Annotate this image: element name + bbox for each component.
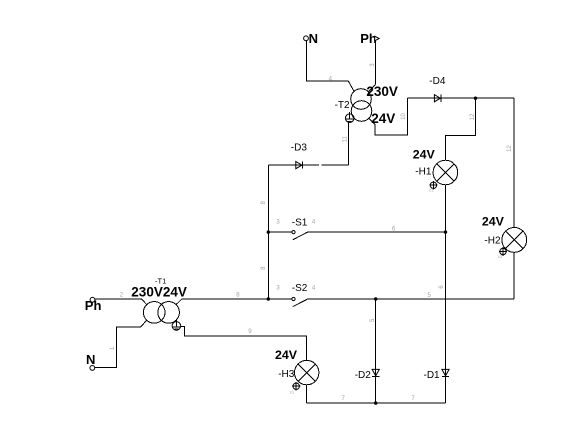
svg-text:24V: 24V [371, 111, 395, 126]
earth terminal symbol on T2 secondary [345, 112, 354, 123]
terminal Ph (left) [85, 297, 102, 313]
wire D3 row [268, 164, 348, 166]
svg-text:24V: 24V [413, 147, 436, 161]
svg-text:Ph: Ph [85, 298, 102, 313]
wire 2 (Ph to T1 primary) [95, 299, 147, 305]
terminal symbol H3 [292, 382, 300, 391]
wire 6 (S1 to right bus) [308, 231, 446, 233]
svg-text:-T2: -T2 [335, 100, 350, 111]
junction S2/D2 [374, 297, 377, 300]
svg-text:-H1: -H1 [415, 166, 432, 177]
earth terminal symbol on T1 secondary [172, 320, 181, 331]
svg-text:12: 12 [507, 145, 513, 152]
diode D4 [434, 95, 441, 102]
svg-text:x1: x1 [429, 188, 434, 193]
svg-text:-S2: -S2 [292, 283, 308, 294]
svg-text:24V: 24V [275, 348, 298, 362]
diode D2 [372, 369, 379, 376]
svg-text:24V: 24V [482, 214, 505, 228]
wire 12 branch (junction down to H1) [446, 98, 476, 160]
svg-text:-D2: -D2 [355, 370, 372, 381]
junction D4 row [474, 97, 477, 100]
diode D3 [296, 162, 303, 169]
wire H2 bottom to S2 row [513, 252, 515, 299]
svg-text:11: 11 [343, 135, 349, 142]
wire 6 vertical (H1 bottom through S1, S2 to D1) [445, 185, 447, 403]
terminal N (top) [304, 31, 318, 46]
wire 11 (T2 secondary left down to D3 row) [348, 123, 350, 166]
wire D4 row [407, 97, 514, 99]
junction S2 left [267, 297, 270, 300]
svg-text:230V24V: 230V24V [131, 284, 187, 299]
svg-text:-D3: -D3 [291, 143, 308, 154]
junction bottom D2 [374, 401, 377, 404]
bottom wire 7 [307, 402, 446, 404]
wire 5 (S2 to right corner) [308, 298, 515, 300]
wire 8 (T1 secondary to S2) [176, 299, 268, 305]
terminal N (left) [86, 352, 95, 370]
transformer T2 primary winding [351, 89, 372, 110]
svg-text:10: 10 [401, 113, 407, 120]
svg-text:N: N [309, 31, 318, 46]
transformer T1 secondary winding [158, 302, 180, 324]
svg-text:x1: x1 [498, 254, 503, 259]
junction S1 left [267, 230, 270, 233]
svg-text:12: 12 [470, 113, 476, 120]
transformer T1 primary winding [143, 302, 165, 324]
wire 3 (Ph top to T2 primary) [368, 41, 375, 92]
svg-text:x1: x1 [290, 390, 295, 395]
switch S2 [268, 297, 307, 306]
wire 12 (right edge down to H2) [513, 98, 515, 227]
switch S1 [268, 231, 307, 240]
wire 4 (N top to T2 primary) [306, 41, 354, 92]
wire 5 vertical (S2 junction down to D2) [375, 299, 377, 403]
terminal symbol H2 [499, 247, 507, 256]
wire 1 (N to T1 primary) [95, 321, 147, 368]
svg-text:-S1: -S1 [292, 217, 308, 228]
wire 9 (T1 earth to H3) [181, 326, 307, 360]
svg-text:N: N [86, 352, 95, 367]
wire 8 (left vertical bus) [267, 165, 269, 299]
transformer T2 secondary winding [351, 101, 372, 122]
junction S1 right [444, 230, 447, 233]
svg-text:-H2: -H2 [484, 235, 501, 246]
lamp H3 [295, 360, 319, 384]
wire 10 (T2 secondary right to D4 row) [369, 98, 408, 135]
diode D1 [442, 369, 449, 376]
svg-text:230V: 230V [366, 84, 398, 99]
svg-text:-D1: -D1 [424, 370, 441, 381]
lamp H2 [502, 228, 527, 253]
wire H3 bottom to bottom wire [306, 385, 308, 403]
svg-text:-D4: -D4 [429, 76, 446, 87]
terminal symbol H1 [429, 181, 437, 190]
terminal Ph (top) [360, 31, 379, 46]
lamp H1 [433, 160, 458, 185]
svg-text:-H3: -H3 [278, 369, 295, 380]
